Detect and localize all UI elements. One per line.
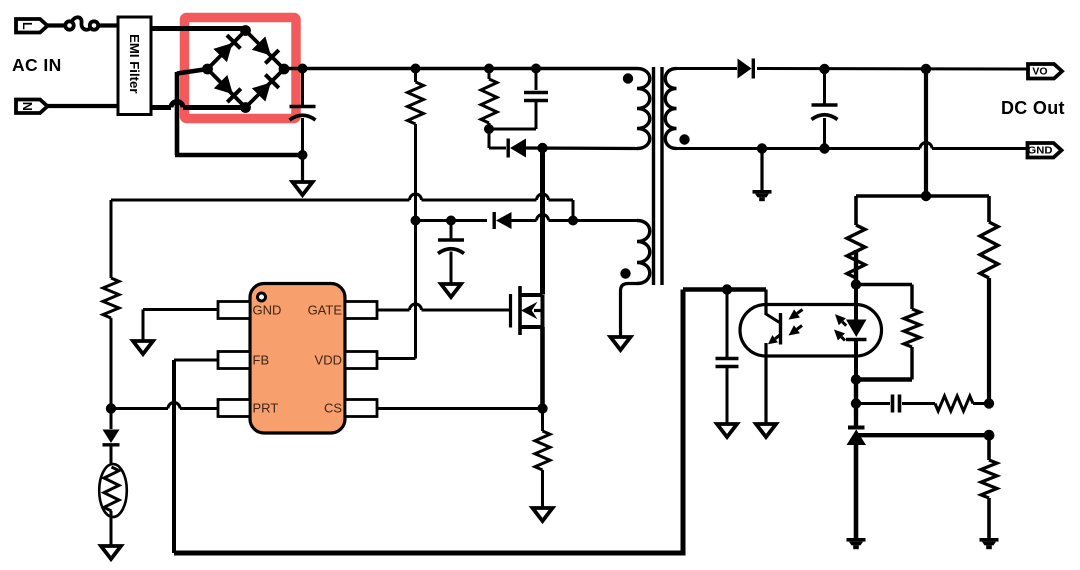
ground xyxy=(101,546,121,559)
node xyxy=(411,216,421,226)
wire xyxy=(284,67,637,70)
pin CS xyxy=(345,400,377,417)
pin VDD xyxy=(345,352,377,369)
wire xyxy=(48,23,66,27)
diode D1 xyxy=(508,139,526,158)
wire xyxy=(111,194,573,200)
ground xyxy=(847,538,866,549)
wire xyxy=(540,327,545,409)
fuse F1 xyxy=(65,17,98,29)
ground xyxy=(756,424,776,437)
resistor R1 xyxy=(408,69,424,221)
ground xyxy=(133,341,153,354)
wire xyxy=(174,290,766,556)
ground xyxy=(717,424,737,437)
resistor R3 xyxy=(535,409,550,509)
wire xyxy=(526,146,637,150)
transformer T1 primary winding xyxy=(637,69,650,149)
EMI filter FL1 xyxy=(118,17,151,115)
bridge rectifier BR1 xyxy=(202,25,289,113)
ground xyxy=(980,538,999,549)
wire xyxy=(416,219,488,222)
node xyxy=(819,143,829,153)
node xyxy=(851,374,861,384)
ground xyxy=(441,284,461,297)
ground xyxy=(533,508,553,521)
wire xyxy=(301,155,304,182)
svg-text:EMI Filter: EMI Filter xyxy=(127,34,142,93)
wire xyxy=(924,69,928,196)
node xyxy=(537,143,547,153)
highlight box (bridge) xyxy=(185,18,297,119)
transformer T1 core xyxy=(654,67,663,285)
wire xyxy=(98,23,118,27)
svg-text:VDD: VDD xyxy=(315,353,342,368)
wire xyxy=(854,285,858,321)
LED D4 xyxy=(846,320,867,340)
wire xyxy=(175,69,303,155)
svg-text:AC IN: AC IN xyxy=(12,55,62,75)
label AC IN xyxy=(12,55,62,75)
wire xyxy=(110,409,113,430)
wire xyxy=(143,310,218,342)
wire xyxy=(377,304,509,310)
wire xyxy=(854,250,858,285)
resistor R5 xyxy=(856,285,920,380)
node xyxy=(484,124,494,134)
svg-text:GND: GND xyxy=(1028,145,1053,157)
optocoupler phototransistor xyxy=(766,290,781,425)
node xyxy=(537,403,547,413)
pin label PRT xyxy=(253,401,279,416)
wire xyxy=(757,67,1028,71)
svg-text:L: L xyxy=(20,22,34,30)
wire xyxy=(677,143,1028,149)
wire xyxy=(488,129,491,148)
wire xyxy=(540,148,545,295)
wire xyxy=(377,357,416,360)
svg-text:PRT: PRT xyxy=(253,401,279,416)
wire xyxy=(760,149,763,191)
connector VO xyxy=(1028,64,1062,79)
pin PRT xyxy=(218,400,250,417)
pin label CS xyxy=(324,401,342,416)
ground xyxy=(293,182,313,195)
shunt regulator U3 xyxy=(847,428,867,539)
diode D3 xyxy=(103,430,120,445)
pin label FB xyxy=(253,353,270,368)
wire xyxy=(858,433,989,437)
connector J1 pin L xyxy=(16,19,48,33)
resistor R6 xyxy=(847,196,865,285)
label DC Out xyxy=(1001,98,1065,118)
wire xyxy=(512,215,638,221)
phase dot xyxy=(620,268,630,278)
wire xyxy=(572,200,575,221)
svg-text:GATE: GATE xyxy=(308,303,343,318)
node xyxy=(984,398,994,408)
svg-text:CS: CS xyxy=(324,401,342,416)
pin FB xyxy=(218,352,250,369)
wire xyxy=(854,380,858,429)
svg-text:VO: VO xyxy=(1032,66,1047,78)
wire xyxy=(110,446,113,466)
wire xyxy=(414,221,417,359)
svg-text:N: N xyxy=(20,102,34,111)
light arrows xyxy=(789,309,803,335)
transformer T1 aux winding xyxy=(637,221,650,284)
diode D2 (VDD) xyxy=(494,212,511,229)
node xyxy=(921,64,931,74)
node xyxy=(298,150,308,160)
capacitor C1 xyxy=(290,69,316,156)
wire xyxy=(151,26,246,31)
ground xyxy=(753,190,772,201)
node xyxy=(851,398,861,408)
wire xyxy=(856,194,989,198)
wire xyxy=(489,128,536,131)
node xyxy=(921,191,931,201)
wire xyxy=(489,147,506,150)
diode D5 xyxy=(738,59,754,79)
transformer T1 secondary winding xyxy=(665,69,676,149)
node xyxy=(851,279,861,289)
pin label GATE xyxy=(308,303,343,318)
wire xyxy=(48,104,119,108)
resistor R4 xyxy=(103,200,119,409)
capacitor C6 xyxy=(812,69,838,149)
svg-text:DC Out: DC Out xyxy=(1001,98,1065,118)
wire xyxy=(151,102,246,108)
wire xyxy=(377,407,543,410)
node xyxy=(531,64,541,74)
ground xyxy=(611,337,631,350)
resistor R2 xyxy=(481,69,497,130)
node xyxy=(298,64,308,74)
node xyxy=(984,430,995,441)
controller U1 xyxy=(250,284,345,434)
resistor R9 xyxy=(981,435,997,538)
svg-text:GND: GND xyxy=(253,303,282,318)
wire xyxy=(677,67,738,70)
phase dot xyxy=(623,73,633,83)
node xyxy=(757,143,767,153)
capacitor C2 xyxy=(524,69,548,130)
pin label VDD xyxy=(315,353,342,368)
node xyxy=(411,64,421,74)
node xyxy=(484,64,494,74)
node xyxy=(446,216,456,226)
svg-text:FB: FB xyxy=(253,353,270,368)
pin GATE xyxy=(345,302,377,319)
node xyxy=(106,403,116,413)
capacitor C3 xyxy=(438,221,464,285)
resistor R7 xyxy=(980,196,998,404)
wire xyxy=(854,340,858,380)
optocoupler U2 body xyxy=(740,305,882,357)
pin label GND xyxy=(253,303,282,318)
light arrows xyxy=(834,314,846,340)
connector J1 pin N xyxy=(16,100,48,114)
thermistor RT1 xyxy=(99,464,127,546)
node xyxy=(722,284,732,294)
wire xyxy=(621,284,638,338)
mosfet Q1 xyxy=(511,286,543,335)
capacitor C5 xyxy=(856,395,935,413)
phase dot xyxy=(679,134,689,144)
pin GND xyxy=(218,302,250,319)
node xyxy=(819,64,829,74)
connector GND xyxy=(1028,143,1062,158)
capacitor C4 xyxy=(716,290,739,425)
resistor R8 xyxy=(935,396,989,411)
node xyxy=(568,216,578,226)
wire xyxy=(111,403,218,409)
